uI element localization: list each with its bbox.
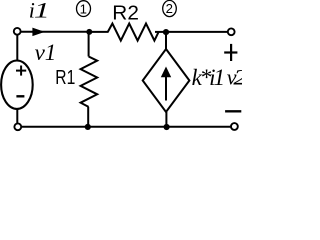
terminal (open circle) bottom-left (14, 123, 21, 130)
terminal (open circle) top-right (228, 28, 235, 35)
svg-text:2: 2 (166, 1, 173, 16)
wire top from node 1 to start of R2 (89, 31, 108, 33)
current arrow i1 on top-left wire (32, 28, 44, 36)
svg-text:R1: R1 (55, 67, 75, 89)
junction dot bottom under current source (164, 124, 170, 130)
wire top from node 2 to right terminal (166, 31, 228, 33)
minus sign inside v1 (16, 95, 24, 97)
wire from node 2 down to current source diamond (165, 32, 167, 49)
dependent current source diamond (143, 49, 190, 112)
wire bottom full run (21, 126, 231, 128)
svg-text:R2: R2 (112, 2, 139, 24)
node label circle 1 (77, 1, 91, 17)
wire top from left terminal to node 1 (21, 31, 90, 33)
wire from R1 down to bottom junction (87, 107, 89, 127)
terminal (open circle) bottom-right (231, 123, 238, 130)
node label circle 2 (163, 0, 177, 16)
wire from node 1 down to R1 (88, 32, 90, 57)
minus sign for v2 (bottom right) (225, 110, 241, 112)
svg-text:2: 2 (233, 65, 242, 90)
arrow inside current source (165, 74, 167, 101)
resistor R1 zigzag (81, 57, 98, 107)
junction dot bottom under R1 (85, 124, 91, 130)
resistor R2 zigzag (108, 24, 159, 41)
node 1 junction dot (86, 29, 92, 35)
plus sign for v2 (top right) (224, 51, 237, 53)
svg-text:v1: v1 (35, 40, 57, 65)
wire from diamond bottom to bottom junction (165, 112, 167, 127)
wire from top-left terminal down to source v1 (16, 35, 18, 61)
svg-text:k*i1: k*i1 (192, 65, 225, 90)
wire from source v1 down to bottom-left terminal (16, 109, 18, 124)
wire top from end of R2 to node 2 (155, 31, 166, 33)
svg-text:1: 1 (80, 1, 87, 16)
svg-text:1: 1 (34, 0, 50, 22)
plus sign inside v1 (16, 70, 26, 72)
node 2 junction dot (163, 29, 169, 35)
voltage source V1 ellipse (1, 60, 33, 108)
terminal (open circle) top-left (14, 28, 21, 35)
